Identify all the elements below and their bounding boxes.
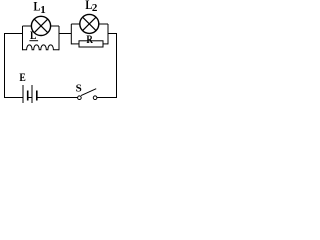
battery E cell 2 short plate xyxy=(36,91,38,101)
lamp L2 xyxy=(80,14,99,33)
svg-text:1: 1 xyxy=(40,4,46,16)
switch S lever xyxy=(81,89,96,96)
wire lamp L1 left lead xyxy=(23,25,32,27)
node left junction A xyxy=(22,26,24,50)
wire left side xyxy=(5,34,24,98)
svg-text:2: 2 xyxy=(92,2,98,14)
underline of label L xyxy=(29,40,38,42)
wire lamp L2 left lead xyxy=(71,23,80,25)
resistor R body xyxy=(79,41,103,47)
svg-text:E: E xyxy=(19,71,25,84)
switch S contact left xyxy=(78,96,82,100)
wire resistor right lead xyxy=(103,43,108,45)
node left junction B xyxy=(58,26,60,50)
wire right side xyxy=(97,34,117,98)
svg-text:R: R xyxy=(86,34,93,46)
wire lamp L1 right lead xyxy=(51,25,60,27)
svg-text:S: S xyxy=(76,82,82,94)
node right junction D xyxy=(107,24,109,44)
wire mid top connecting sections xyxy=(59,33,71,35)
node right junction C xyxy=(70,24,72,44)
switch S contact right xyxy=(93,96,97,100)
wire battery to switch xyxy=(37,97,78,99)
lamp L1 xyxy=(31,16,50,35)
wire lamp L2 right lead xyxy=(99,23,108,25)
battery E cell 1 long plate xyxy=(22,85,24,103)
battery E cell 2 long plate xyxy=(31,85,33,103)
wire resistor left lead xyxy=(71,43,79,45)
battery E cell 1 short plate xyxy=(27,91,29,101)
inductor L coil xyxy=(23,45,60,50)
wire between battery cells xyxy=(28,97,32,99)
